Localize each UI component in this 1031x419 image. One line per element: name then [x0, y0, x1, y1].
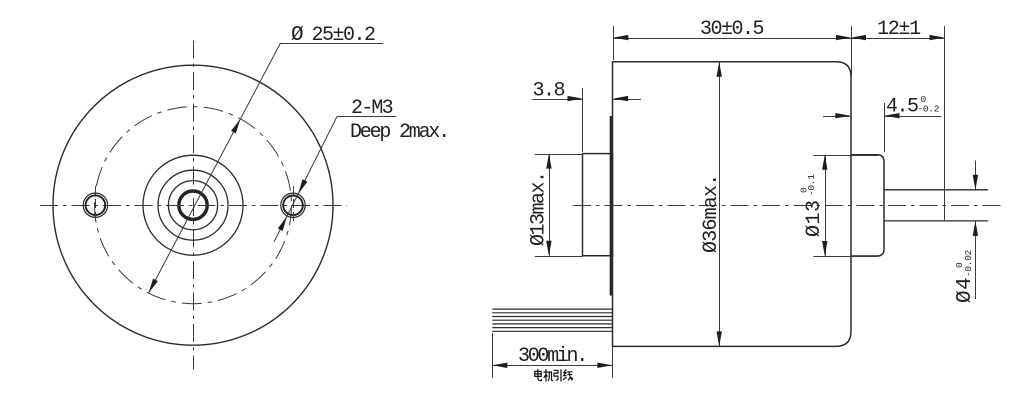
- svg-text:30±0.5: 30±0.5: [700, 18, 764, 41]
- dim 30 left extension line: [613, 26, 615, 60]
- arrowhead dim 12 left: [851, 35, 866, 40]
- arrowhead dim 300 right: [597, 363, 612, 368]
- svg-text:25±0.2: 25±0.2: [312, 24, 376, 47]
- svg-text:Ø13: Ø13: [803, 199, 826, 237]
- pilot circle: [168, 181, 217, 230]
- dim 3.8 line left part: [532, 99, 582, 101]
- dim 30/12 shared extension line at body right: [851, 26, 853, 76]
- arrowhead dim 4.5 at boss end: [885, 113, 900, 118]
- svg-text:3.8: 3.8: [533, 79, 565, 102]
- text d13 0/-0.1 vertical: [799, 174, 827, 237]
- shaft top edge + d4 extension line: [884, 189, 988, 191]
- svg-text:300min.: 300min.: [518, 345, 586, 368]
- mounting hole M3 left, outer circle: [83, 193, 107, 217]
- lead wires (7 lines): [492, 308, 612, 310]
- dim 3.8 extension line: [582, 88, 584, 152]
- shaft circle (thick ring): [179, 191, 207, 219]
- side view horizontal centerline: [573, 205, 1003, 207]
- svg-text:-0.1: -0.1: [806, 174, 817, 196]
- motor front view outer circle: [53, 65, 333, 345]
- svg-text:Ø: Ø: [291, 24, 303, 47]
- arrowhead dim 4.5 at body edge: [835, 113, 850, 118]
- text dianji yinxian (motor lead wires), hand-drawn hanzi: [535, 369, 573, 381]
- text d36max vertical: [700, 175, 723, 253]
- dim 300 line: [492, 365, 612, 367]
- svg-text:2-M3: 2-M3: [351, 97, 393, 120]
- dim d13 boss top extension line: [813, 155, 878, 157]
- dim 12 line: [851, 38, 945, 40]
- leader 2-M3 line: [274, 117, 337, 243]
- rear boss d13: [851, 155, 884, 256]
- arrowhead dim d13max top: [546, 154, 551, 169]
- arrowhead dim d25 lower: [149, 279, 158, 294]
- arrowhead dim d4 bottom: [973, 221, 978, 236]
- shaft bottom edge + d4 extension line: [884, 220, 988, 222]
- right hole vertical center tick: [293, 186, 295, 224]
- dim 4.5 line left part: [823, 116, 850, 118]
- dim 300 left extension line: [492, 333, 494, 378]
- arrowhead dim 30 left: [613, 35, 628, 40]
- dim d13max top extension line: [535, 154, 583, 156]
- svg-text:-0.02: -0.02: [963, 249, 974, 277]
- svg-text:Ø4: Ø4: [954, 277, 977, 303]
- arrowhead dim 3.8 right: [613, 96, 628, 101]
- vertical centerline: [193, 41, 195, 370]
- dim 4.5 line right part: [885, 116, 942, 118]
- arrowhead dim d36max top: [717, 62, 722, 77]
- dim d36max line: [719, 62, 721, 347]
- dim 300 right extension line: [612, 347, 614, 378]
- front flange edge line: [610, 116, 612, 296]
- dim d13 boss line: [825, 155, 827, 256]
- leader 2-M3 underline: [337, 116, 396, 118]
- arrowhead dim 30 right: [836, 35, 851, 40]
- arrowhead dim d13 boss top: [822, 155, 827, 170]
- dim 3.8 line right part: [613, 99, 641, 101]
- front bushing d13max: [583, 154, 613, 256]
- svg-text:Ø36max.: Ø36max.: [700, 175, 723, 253]
- shaft end edge / dim 12 right extension line: [944, 26, 946, 221]
- arrowhead dim d13max bottom: [546, 241, 551, 256]
- bushing circle d13: [143, 155, 243, 255]
- text d4 0/-0.02 vertical: [954, 249, 977, 303]
- dim d13max bottom extension line: [535, 256, 583, 258]
- arrowhead dim d4 top: [973, 175, 978, 190]
- dim d13 boss bottom extension line: [813, 256, 878, 258]
- svg-text:Deep 2max.: Deep 2max.: [350, 121, 448, 144]
- mounting hole M3 left, inner circle: [86, 195, 106, 215]
- dim d13max line: [549, 154, 551, 256]
- text d13max vertical: [528, 172, 551, 246]
- dim 30 line: [613, 38, 851, 40]
- arrowhead dim d25 upper: [231, 119, 240, 133]
- svg-text:12±1: 12±1: [877, 18, 921, 41]
- horizontal centerline: [40, 205, 347, 207]
- arrowhead leader 2-M3 upper: [298, 179, 307, 194]
- mounting hole M3 right, inner circle: [283, 196, 303, 216]
- arrowhead leader 2-M3 lower: [278, 216, 287, 231]
- arrowhead dim 3.8 left: [568, 96, 583, 101]
- bolt circle (dash-dot, d25): [95, 107, 292, 304]
- mounting hole M3 right, outer circle: [281, 193, 305, 217]
- svg-text:Ø13max.: Ø13max.: [528, 172, 551, 246]
- arrowhead dim 300 left: [492, 363, 507, 368]
- bearing boss circle: [158, 170, 228, 240]
- arrowhead dim 12 right: [930, 35, 945, 40]
- dim d25 underline: [281, 43, 384, 45]
- arrowhead dim d36max bottom: [717, 331, 722, 346]
- dim d4 line bottom part: [975, 221, 977, 299]
- svg-text:-0.2: -0.2: [918, 104, 940, 115]
- dim d4 line top part: [975, 161, 977, 190]
- motor body outline (side view): [613, 62, 852, 347]
- dim 4.5 extension line at boss end: [884, 103, 886, 152]
- left hole vertical center tick: [95, 186, 97, 224]
- arrowhead dim d13 boss bottom: [822, 241, 827, 256]
- dim d25 leader line: [149, 43, 281, 293]
